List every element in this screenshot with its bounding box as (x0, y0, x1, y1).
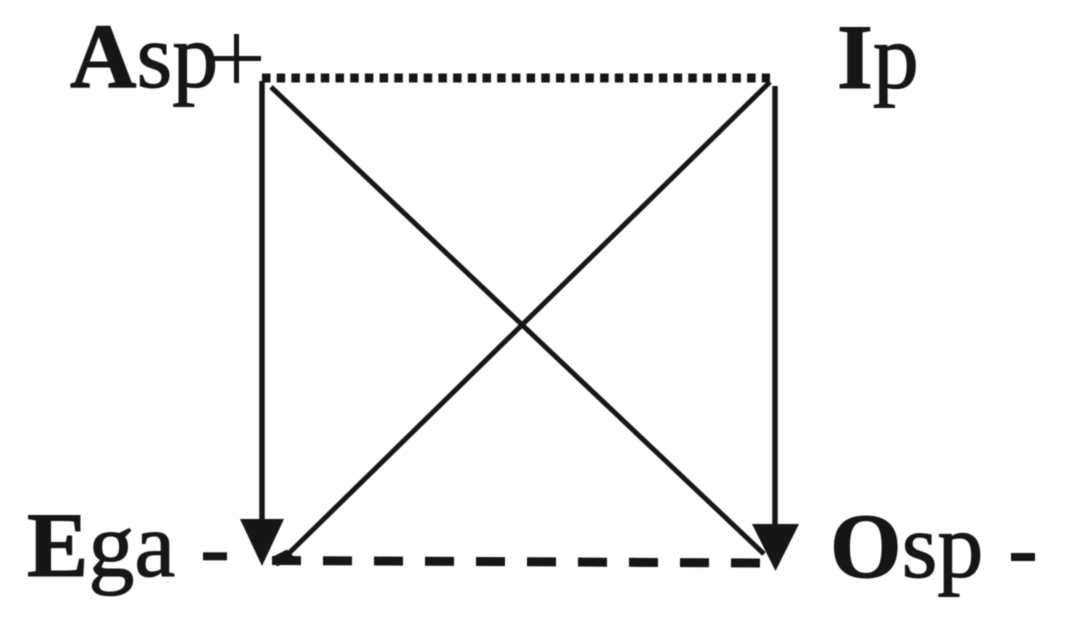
svg-text:Ip: Ip (837, 6, 919, 108)
small arrowhead at E end of diagonal (274, 550, 295, 567)
right arrowhead (752, 524, 799, 571)
svg-text:Ega: Ega (27, 494, 175, 596)
svg-text:Asp: Asp (70, 5, 218, 107)
svg-text:Osp: Osp (830, 495, 983, 597)
plus sign after Asp (212, 56, 261, 61)
wire: dashed bottom edge E-O (272, 561, 766, 564)
wire: diagonal A to O (271, 87, 764, 554)
minus after Osp (1011, 553, 1035, 561)
left arrowhead (240, 519, 284, 566)
minus after Ega (203, 552, 227, 560)
wire: right vertical arrow shaft I to O (772, 86, 778, 532)
wire: diagonal I to E (282, 82, 770, 560)
wire: left vertical arrow shaft A to E (259, 81, 265, 528)
wire: dotted top edge A-I (262, 74, 770, 83)
